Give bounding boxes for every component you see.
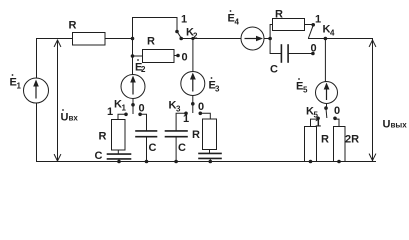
K3 contact 1 dot [184,112,188,116]
K2 contact 0 dot [176,54,180,58]
switch K5 blade [325,109,328,118]
svg-text:3: 3 [215,85,220,94]
source E2 arrow [132,80,134,95]
svg-text:1: 1 [122,104,127,113]
svg-text:U: U [61,112,69,124]
E5 junction dot [324,37,328,41]
svg-text:0: 0 [139,103,145,115]
arrowhead down right edge [369,154,375,161]
resistor R E4-branch [273,19,305,31]
svg-text:1: 1 [315,14,321,26]
svg-text:1: 1 [315,118,321,130]
wire E4 right lead [264,38,270,40]
wire node A down to E2 [132,39,134,75]
wire bypass up-over to K2 contact 1 [133,18,178,39]
source E5 arrow [326,87,328,101]
capacitor C1 top plate [136,130,157,132]
K1 contact 0 dot [138,113,142,117]
arrowhead up Uvx [54,40,60,47]
bottom rail dot R K5-branch [309,160,313,164]
capacitor under R K3-branch bottom plate [199,157,221,159]
K4 contact 0 dot [311,52,315,56]
wire E2 branch resistor right lead [174,55,177,57]
svg-text:2: 2 [141,65,146,74]
svg-text:1: 1 [107,106,113,118]
source E1 arrow [33,36,329,100]
wire right edge vertical with arrows [372,39,374,162]
wire K2 common to E4 [181,38,241,40]
K5 contact 0 dot [333,117,337,121]
arrowhead down Uvx [54,155,60,162]
wire K1 contact1 to R [118,114,126,119]
capacitor C2 top plate [166,130,188,132]
wire E5 bottom stub [326,104,328,108]
K5 contact 1 dot [316,117,320,121]
wire E3 bottom stub [192,96,194,104]
K3 common dot [191,102,195,106]
svg-text:2: 2 [193,32,198,41]
wire K5 contact1 to R [311,119,318,126]
capacitor C2 bottom plate [166,136,188,138]
wire E2 branch resistor left lead [133,55,143,57]
wire K3 contact0 to R [201,113,211,119]
node A junction dot [131,37,135,41]
svg-text:1: 1 [181,14,187,26]
svg-text:0: 0 [198,101,204,113]
resistor R K1-branch [112,120,126,151]
source E4 arrow [245,38,260,40]
capacitor C K4-branch right plate [287,45,289,62]
resistor R top-left [73,33,106,46]
wire E3 vertical [192,39,194,72]
wire top-left horizontal [37,38,73,40]
K3 contact 0 dot [199,112,203,116]
capacitor under R K1-branch bottom plate [108,158,131,160]
svg-text:R: R [69,20,77,32]
wire R to cap K1-branch [117,150,119,153]
svg-text:C: C [149,142,157,154]
svg-text:R: R [192,129,200,141]
source E4 circle [241,27,264,50]
E4 junction dot [268,37,272,41]
K1 contact 1 dot [124,113,128,117]
svg-text:R: R [321,134,329,146]
wire up to R of K4 branch [270,25,272,39]
resistor R E2-branch [143,50,175,63]
wire C1 down [146,137,148,161]
svg-text:4: 4 [235,18,240,27]
switch K1 blade [132,106,134,114]
resistor R K3-branch [203,119,217,150]
Uvx arrow line [57,40,59,160]
wire cap to bottom K3-branch [209,159,211,161]
wire R to cap K3-branch [209,150,211,153]
resistor R K5-branch [305,127,317,162]
wire cap to bottom K1-branch [118,160,120,162]
wire K4 common to right corner [309,38,373,40]
wire K3 contact1 to C2 [176,113,185,130]
source E3 arrow [192,77,194,92]
svg-text:U: U [383,119,391,131]
svg-text:вх: вх [69,114,79,123]
switch K2 blade [177,32,181,38]
wire left vertical upper [36,39,38,79]
K1 common dot [131,103,135,107]
source E2 circle [121,75,145,99]
wire down to C of K4 branch [270,39,281,54]
bottom rail dot 2R K5-branch [337,160,341,164]
capacitor C K4-branch left plate [280,45,282,62]
bottom rail dot cap K1-branch [117,160,121,164]
svg-text:5: 5 [303,86,308,95]
K2 contact 1 dot [175,30,179,34]
wire E5 vertical [324,39,326,82]
bottom rail dot C1 [145,160,149,164]
wire left vertical lower [36,103,38,162]
wire K5 contact0 to 2R [336,119,340,126]
K4 contact 1 dot [311,23,315,27]
bottom rail dot C2 [174,160,178,164]
source E3 circle [181,72,205,96]
svg-text:0: 0 [334,105,340,117]
svg-text:1: 1 [183,113,189,125]
svg-text:вых: вых [391,121,408,130]
svg-text:C: C [270,64,278,76]
switch K3 blade [192,105,194,113]
svg-text:C: C [178,142,186,154]
svg-text:2R: 2R [345,134,359,146]
svg-text:C: C [95,150,103,162]
svg-text:R: R [147,36,155,48]
arrowhead up right edge [369,40,375,47]
capacitor under R K3-branch top plate [199,152,221,154]
source E5 circle [316,82,338,104]
svg-text:1: 1 [17,82,22,91]
capacitor C1 bottom plate [136,136,157,138]
wire R to K4 contact 1 [305,24,312,26]
switch K4 blade [309,26,313,38]
svg-text:0: 0 [311,43,317,55]
svg-text:0: 0 [182,52,188,64]
source E1 circle [24,78,49,103]
wire K1 contact0 to C [141,114,147,130]
capacitor under R K1-branch top plate [108,153,131,155]
E2 resistor junction dot [131,54,135,58]
svg-text:4: 4 [330,29,335,38]
wire bottom rail [37,161,376,163]
svg-text:R: R [99,131,107,143]
wire resistor to node A [105,38,133,40]
wire E2 top stub [132,99,134,105]
K5 common dot [324,106,328,110]
bottom rail dot cap K3-branch [209,160,213,164]
K2 common dot [179,37,183,41]
E3 junction dot [191,37,194,40]
wire C2 down [175,137,177,161]
svg-text:3: 3 [176,105,181,114]
resistor 2R K5-branch [334,127,346,162]
svg-text:R: R [275,9,283,21]
wire C to K4 contact 0 [289,53,313,55]
